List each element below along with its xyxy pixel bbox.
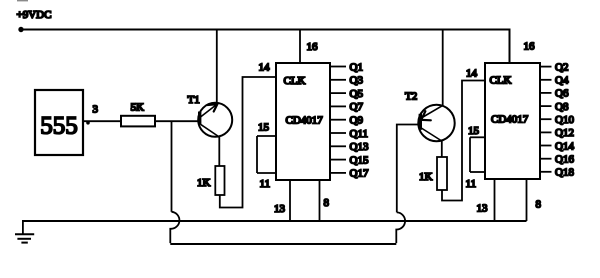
resistor R3 1K (419, 157, 447, 190)
svg-text:Q10: Q10 (555, 114, 574, 126)
svg-text:CLK: CLK (284, 75, 306, 87)
transistor Q1 T1 (198, 103, 232, 137)
label 16 chip2 (524, 41, 536, 53)
svg-text:CLK: CLK (490, 75, 512, 87)
wire T2 collector to 1K (441, 141, 443, 158)
svg-text:8: 8 (324, 197, 330, 209)
svg-text:13: 13 (274, 203, 286, 215)
svg-text:1K: 1K (197, 177, 211, 189)
label 13 chip2 (477, 203, 489, 215)
svg-text:13: 13 (477, 203, 489, 215)
chip2 output pins Q2-Q18 (540, 67, 552, 172)
wire chip1 pin15 to pin11 loop (256, 136, 258, 173)
wire 555 pin3 to 5K (83, 120, 121, 122)
svg-text:Q6: Q6 (555, 88, 569, 100)
svg-text:14: 14 (259, 62, 271, 74)
label 15 chip1 (258, 122, 270, 134)
node 555 output dot (86, 121, 90, 125)
svg-text:Q13: Q13 (350, 141, 369, 153)
label 13 chip1 (274, 203, 286, 215)
wire chip2 pin11 stub (470, 171, 485, 173)
label 8 chip1 (324, 197, 330, 209)
wire hopover left (170, 212, 179, 243)
svg-text:16: 16 (307, 41, 319, 53)
svg-text:5K: 5K (131, 102, 145, 114)
wire riser to T2 base (397, 125, 419, 213)
wire chip1 pin8 to ground (319, 180, 321, 221)
label T2 (405, 91, 417, 103)
resistor R2 1K (197, 166, 225, 195)
IC U2 CD4017 (276, 63, 330, 180)
wire T1 emitter to rail (216, 30, 218, 105)
wire base node dropper (171, 121, 173, 212)
svg-text:555: 555 (40, 113, 78, 140)
wire T2 emitter to rail (442, 30, 444, 106)
svg-text:CD4017: CD4017 (286, 115, 324, 127)
svg-text:Q4: Q4 (555, 75, 569, 87)
wire ground bus (22, 220, 527, 222)
svg-text:14: 14 (466, 68, 478, 80)
svg-text:11: 11 (466, 178, 477, 190)
svg-text:Q15: Q15 (350, 154, 369, 166)
label 11 chip2 (466, 178, 477, 190)
wire chip2 pin15 stub (470, 136, 485, 138)
svg-text:Q8: Q8 (555, 101, 569, 113)
svg-text:+9VDC: +9VDC (17, 9, 52, 21)
svg-text:Q11: Q11 (350, 128, 369, 140)
cropped text remnant top edge (17, 0, 28, 1)
svg-text:Q3: Q3 (350, 75, 364, 87)
resistor R1 5K (121, 102, 155, 127)
labels Q2-Q18 (555, 61, 574, 178)
wire 5K to T1 base (155, 120, 200, 122)
svg-text:CD4017: CD4017 (491, 114, 529, 126)
wire hopover right (396, 212, 405, 243)
wire T1 collector to 1K (218, 137, 220, 167)
svg-text:T1: T1 (188, 94, 200, 106)
svg-text:Q16: Q16 (555, 154, 574, 166)
label 14 chip2 (466, 68, 478, 80)
svg-text:Q12: Q12 (555, 127, 574, 139)
IC U3 CD4017 (485, 63, 540, 179)
svg-text:Q14: Q14 (555, 140, 574, 152)
label 15 chip2 (468, 125, 480, 137)
ground (15, 221, 34, 243)
wire base bus bottom (170, 243, 396, 245)
svg-text:Q18: Q18 (555, 167, 574, 179)
supply terminal dot (18, 27, 23, 32)
wire chip2 pin13 to ground (494, 179, 496, 221)
transistor Q2 T2 (418, 105, 454, 141)
label T1 (188, 94, 200, 106)
label 16 chip1 (307, 41, 319, 53)
svg-text:11: 11 (260, 178, 271, 190)
label +9VDC (17, 9, 52, 21)
IC 555 U1 (35, 90, 83, 155)
svg-text:3: 3 (93, 104, 99, 116)
label 8 chip2 (536, 199, 542, 211)
svg-text:15: 15 (258, 122, 270, 134)
wire chip1 pin16 (299, 30, 301, 64)
label 11 chip1 (260, 178, 271, 190)
svg-text:16: 16 (524, 41, 536, 53)
wire chip1 pin11 stub (257, 172, 276, 174)
svg-text:Q7: Q7 (350, 101, 364, 113)
chip1 output pins Q1-Q17 (330, 67, 346, 173)
svg-text:8: 8 (536, 199, 542, 211)
svg-text:Q1: Q1 (350, 61, 363, 73)
labels Q1-Q17 (350, 61, 369, 179)
svg-text:Q2: Q2 (555, 61, 568, 73)
svg-text:Q17: Q17 (350, 168, 369, 180)
svg-text:Q9: Q9 (350, 115, 364, 127)
wire +9V rail (21, 30, 510, 64)
wire chip1 pin15 stub (257, 135, 276, 137)
wire chip2 pin15 to pin11 loop (469, 137, 471, 172)
svg-text:T2: T2 (405, 91, 417, 103)
pin 3 label (93, 104, 99, 116)
wire chip2 pin8 to ground (526, 179, 528, 221)
svg-text:1K: 1K (419, 171, 433, 183)
wire chip1 pin13 to ground (289, 180, 291, 221)
label 14 chip1 (259, 62, 271, 74)
svg-text:Q5: Q5 (350, 88, 364, 100)
wire 1K to chip2 CLK pin14 (442, 81, 485, 201)
svg-text:15: 15 (468, 125, 480, 137)
wire 1K to chip1 CLK pin14 (220, 77, 276, 208)
